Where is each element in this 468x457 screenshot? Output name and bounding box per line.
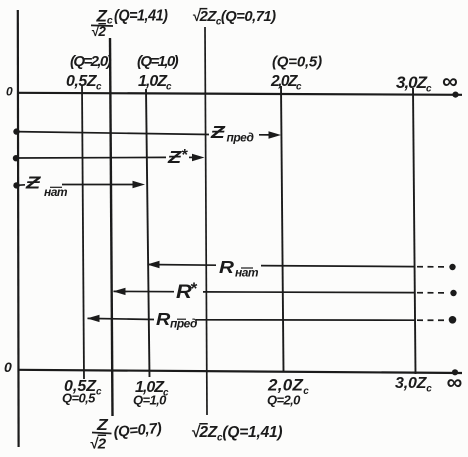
svg-text:√2Zc(Q=1,41): √2Zc(Q=1,41) (191, 424, 282, 444)
svg-text:∞: ∞ (447, 370, 463, 395)
svg-text:пред: пред (227, 131, 254, 145)
svg-text:Ƶ: Ƶ (25, 173, 42, 193)
svg-text:*: * (181, 147, 188, 164)
svg-text:(Q=1,41): (Q=1,41) (114, 7, 168, 25)
svg-text:(Q=1,0): (Q=1,0) (137, 53, 179, 70)
svg-text:Q=0,5: Q=0,5 (62, 391, 96, 406)
svg-text:√2Zc(Q=0,71): √2Zc(Q=0,71) (192, 9, 276, 28)
svg-text:√2: √2 (90, 436, 107, 453)
svg-text:√2: √2 (91, 24, 106, 39)
svg-text:Z: Z (96, 416, 109, 434)
svg-text:(Q=2,0): (Q=2,0) (70, 53, 112, 70)
svg-text:R: R (219, 257, 234, 277)
svg-text:Q=1,0: Q=1,0 (133, 393, 167, 408)
svg-text:R: R (156, 310, 171, 330)
svg-text:∞: ∞ (442, 69, 458, 94)
svg-text:Q=2,0: Q=2,0 (267, 393, 301, 408)
svg-text:0: 0 (6, 85, 13, 99)
svg-text:0: 0 (4, 359, 12, 375)
svg-text:(Q=0,5): (Q=0,5) (272, 54, 322, 71)
svg-text:Ƶ: Ƶ (167, 148, 182, 168)
svg-text:Ƶ: Ƶ (210, 123, 227, 142)
